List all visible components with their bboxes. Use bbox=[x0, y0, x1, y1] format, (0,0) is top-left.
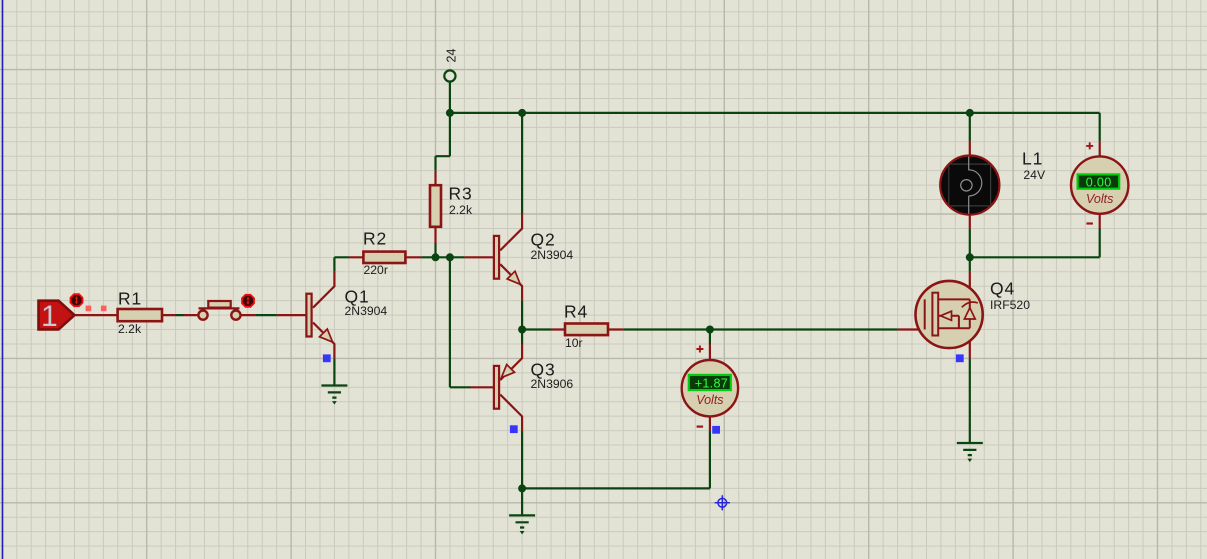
svg-text:1: 1 bbox=[41, 300, 58, 333]
svg-text:R1: R1 bbox=[118, 289, 142, 309]
svg-text:L1: L1 bbox=[1022, 149, 1043, 169]
svg-text:10r: 10r bbox=[565, 336, 583, 350]
svg-text:R3: R3 bbox=[449, 184, 473, 204]
svg-text:+1.87: +1.87 bbox=[695, 377, 728, 391]
svg-text:IRF520: IRF520 bbox=[990, 298, 1030, 312]
svg-text:2N3904: 2N3904 bbox=[345, 304, 388, 318]
svg-text:24V: 24V bbox=[1023, 168, 1046, 182]
svg-text:2N3904: 2N3904 bbox=[531, 248, 574, 262]
svg-text:24: 24 bbox=[445, 49, 459, 63]
svg-text:Volts: Volts bbox=[1086, 192, 1113, 206]
svg-text:Q2: Q2 bbox=[531, 230, 556, 250]
svg-text:220r: 220r bbox=[364, 263, 388, 277]
svg-text:2.2k: 2.2k bbox=[449, 203, 473, 217]
svg-text:2N3906: 2N3906 bbox=[531, 377, 574, 391]
svg-text:R4: R4 bbox=[564, 302, 588, 322]
svg-text:Q4: Q4 bbox=[990, 279, 1015, 299]
svg-text:0.00: 0.00 bbox=[1086, 175, 1112, 189]
svg-text:Volts: Volts bbox=[696, 393, 723, 407]
svg-text:R2: R2 bbox=[363, 229, 387, 249]
svg-text:2.2k: 2.2k bbox=[118, 322, 142, 336]
